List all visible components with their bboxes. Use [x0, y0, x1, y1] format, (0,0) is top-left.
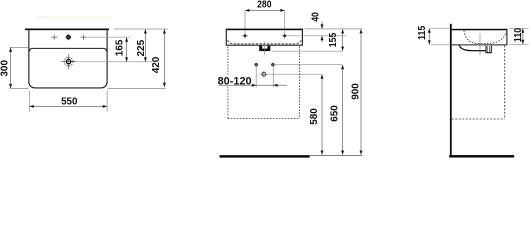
top view: bowl back edge [29, 48, 106, 51]
front view: extension lines for 280 [245, 11, 285, 39]
dimension 40: outside arrows segments [321, 21, 324, 42]
svg-text:110: 110 [513, 27, 524, 42]
dimension 580: label [309, 108, 320, 125]
front view: fixing hole right [282, 34, 288, 38]
faint guide line above top view [36, 16, 112, 18]
front view: supply connection left [254, 63, 258, 67]
shared top extension line for 225/420 [114, 28, 168, 30]
top view: drain symbol [61, 54, 76, 69]
dimension 300: label [0, 60, 11, 77]
top view: basin outer outline [29, 30, 107, 88]
dimension 550: dimension line and arrows [29, 105, 107, 108]
front view: drain stub [259, 46, 270, 51]
dimension 300: dimension line and arrows [9, 48, 12, 89]
leader from tap hole to 165 dimension [86, 36, 129, 38]
side view: trap outline [459, 45, 491, 52]
front view: basin body outline [226, 30, 302, 45]
leader from waste to 580 dimension [268, 73, 322, 75]
front view: fixing hole left [242, 34, 248, 38]
front view: supply connection right [271, 63, 275, 67]
dimension 300: extension lines [9, 47, 28, 88]
svg-text:300: 300 [0, 60, 11, 77]
leader from drain to 165/225 dimension [76, 61, 152, 63]
dimension 80-120: dimension line and outside arrows [219, 84, 288, 87]
svg-text:420: 420 [151, 56, 162, 73]
dimension 650: label [329, 105, 340, 122]
dashed installation zone left line [227, 46, 229, 118]
dimension 115: label [417, 25, 428, 40]
dashed installation zone bottom line [228, 118, 300, 120]
svg-text:900: 900 [350, 83, 361, 100]
dimension 110: extension lines [509, 28, 529, 44]
leader from fixing holes to 40 dimension [288, 35, 346, 37]
dimension 155: label [328, 32, 339, 47]
side view: basin front edge [506, 30, 508, 45]
front view: hidden bowl bottom (dashed) [228, 40, 302, 44]
svg-text:40: 40 [310, 12, 321, 22]
side view: centerline through trap [479, 33, 481, 55]
dimension 280: dimension line and arrows [245, 9, 285, 12]
leader from drain stub to 155 dimension [271, 50, 342, 52]
dimension 900: label [350, 83, 361, 100]
dimension 580: dimension line and arrows [321, 74, 324, 154]
side view: drain pipe dashed horizontal [452, 118, 505, 120]
top view: tap hole [65, 34, 71, 40]
leader from supply to 650 dimension [275, 64, 343, 66]
dimension 115: extension lines [430, 28, 449, 45]
dimension 420: label [151, 56, 162, 73]
svg-text:280: 280 [257, 0, 272, 10]
dimension 40: label [310, 12, 321, 22]
svg-text:650: 650 [329, 105, 340, 122]
dimension 420: extension line bottom [108, 87, 166, 89]
svg-text:80-120: 80-120 [218, 75, 252, 87]
top view: back edge bar [25, 29, 109, 31]
dimension 225: label [136, 40, 147, 57]
rim level extension line [305, 28, 363, 30]
dimension 115: dimension line and arrows [428, 28, 431, 44]
svg-text:225: 225 [136, 40, 147, 57]
dashed installation zone right line [299, 46, 301, 118]
svg-text:115: 115 [417, 25, 428, 40]
dimension 165: dimension line and arrows [125, 38, 128, 62]
front view: top edge bar [226, 29, 303, 31]
svg-text:155: 155 [328, 32, 339, 47]
dimension 900: dimension line and arrows [360, 29, 363, 155]
svg-text:580: 580 [309, 108, 320, 125]
dimension 80-120: label [218, 75, 252, 87]
dimension 110: label [513, 27, 524, 42]
dimension 155: dimension line and arrows [341, 29, 344, 51]
side view: basin underside [452, 44, 508, 46]
top view: alternative tap hole mark left [51, 35, 57, 40]
dimension 80-120: extension lines [256, 67, 273, 88]
dimension 110: dimension line and arrows [521, 29, 524, 45]
side view: rim top edge [452, 29, 508, 31]
dimension 550: label [61, 97, 78, 108]
side view: floor line [449, 155, 514, 157]
side view: hidden bowl profile (dashed) [464, 31, 507, 44]
svg-text:550: 550 [61, 97, 78, 108]
svg-text:165: 165 [114, 39, 125, 56]
side view: wall line [450, 24, 452, 158]
dimension 550: extension lines [29, 90, 107, 112]
front view: drain stub centerline [263, 42, 265, 55]
side view: drain pipe dashed vertical [504, 45, 506, 119]
dimension 650: dimension line and arrows [341, 65, 344, 155]
dimension 280: label [257, 0, 272, 10]
dimension 225: dimension line and arrows [144, 29, 147, 62]
front view: floor line [220, 155, 363, 157]
top view: alternative tap hole mark right [81, 35, 87, 40]
dimension 420: dimension line and arrows [163, 29, 166, 87]
dimension 165: label [114, 39, 125, 56]
front view: waste connection crosshair [260, 71, 267, 78]
